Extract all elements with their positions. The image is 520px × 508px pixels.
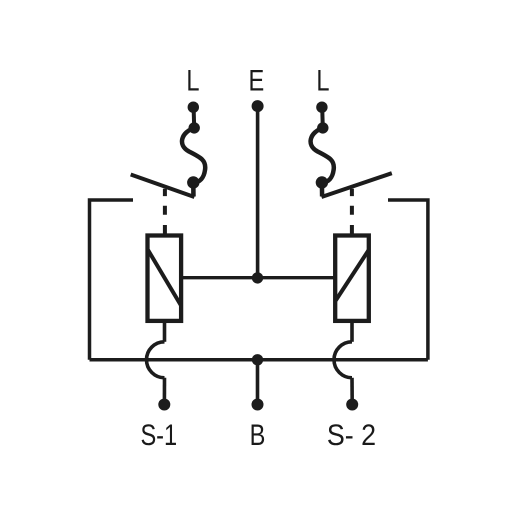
svg-text:B: B [250,418,266,451]
node left blade pivot [187,176,199,188]
terminal dot L left [188,102,199,113]
coil box K2 [335,236,369,321]
node left flex top [189,122,200,133]
node right flex top [317,122,328,133]
wire K1 bottom lead [163,321,167,342]
wire B lead [256,360,260,405]
wire L left lead [192,107,197,128]
terminal dot S-1 [158,399,170,411]
node B junction [252,354,263,365]
wire left hop to S-1 [163,378,167,405]
wire right hop to S-2 [350,378,354,405]
switch blade left [131,175,195,198]
terminal dot L right [316,102,327,113]
svg-text:E: E [249,64,265,97]
mechanical link right (dashed) [350,189,354,234]
svg-text:L: L [316,64,329,97]
node E junction [252,272,263,283]
wire outer frame left [90,200,134,360]
wire middle coil bus [181,276,336,279]
switch blade right [322,173,392,197]
svg-text:S-1: S-1 [140,418,177,451]
svg-text:L: L [186,64,199,97]
wire crossover hop right [334,342,352,378]
terminal dot S-2 [346,399,358,411]
mechanical link left (dashed) [163,189,167,234]
coil box K1 [148,236,182,321]
terminal dot B [252,399,264,411]
wire K2 bottom lead [350,321,354,342]
wire left flexible lead (S-curve) [182,128,205,197]
coil K1 diagonal [148,250,181,306]
wire outer frame right [388,200,428,360]
coil K2 diagonal [336,250,369,301]
svg-text:S- 2: S- 2 [327,418,376,451]
wire bottom bus [90,358,428,362]
wire E column [256,106,260,278]
wire crossover hop left [147,342,165,378]
wire L right lead [320,107,325,128]
terminal dot E [252,100,264,112]
wire right flexible lead (S-curve) [311,128,334,197]
node right blade pivot [316,176,328,188]
